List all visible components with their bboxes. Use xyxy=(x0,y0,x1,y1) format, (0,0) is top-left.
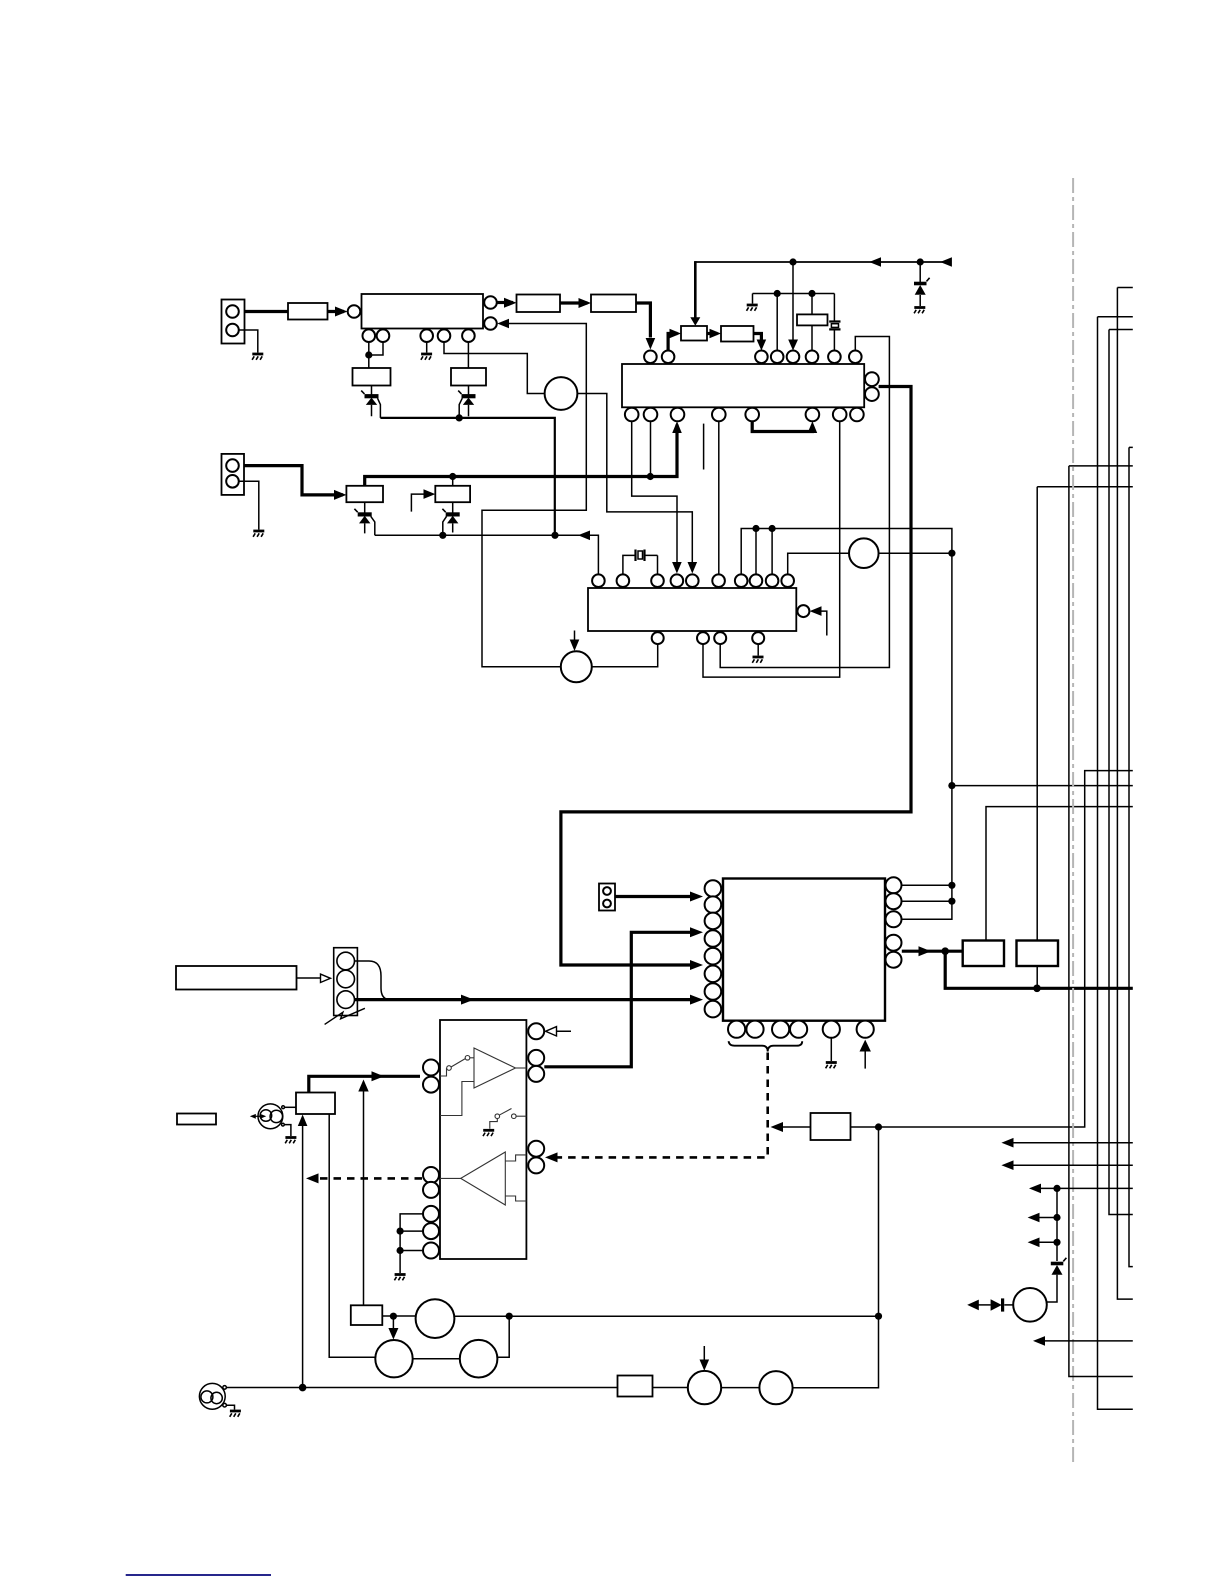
motor circle MD xyxy=(416,1299,455,1338)
resistor R1 xyxy=(288,303,328,320)
wire: MD long line to right riser xyxy=(454,1315,878,1317)
ground xyxy=(252,354,263,360)
arrow into MB xyxy=(392,1316,394,1330)
ground xyxy=(752,657,763,663)
wire: IC3 pins 7-9 loop to motor net xyxy=(741,529,952,920)
wire: IC2 pin10 drop xyxy=(650,421,652,476)
IC2 bottom pins xyxy=(625,408,864,422)
wire: A1 output xyxy=(516,1067,527,1069)
IC3 top pins xyxy=(592,574,794,587)
wire: J1 tip to B7 xyxy=(285,1106,296,1108)
wire: IC5 left trio to ground xyxy=(400,1214,422,1273)
resistor R7 xyxy=(963,941,1004,967)
wire: supply line Y262 xyxy=(695,261,947,263)
connector CN4 flex cable xyxy=(325,948,365,1025)
wire: IC3 pin bottom1 to motor M2 xyxy=(592,644,658,667)
wire: J2 sleeve ground xyxy=(227,1405,235,1409)
wire: IC3 right pin input stub xyxy=(812,611,827,635)
resistor R8 xyxy=(1017,941,1059,967)
open arrow stub into IC5 pin1 xyxy=(546,1027,572,1036)
arrow stub into M2 xyxy=(574,631,576,644)
resistor R2A xyxy=(517,295,561,313)
wire: dot drop to MC xyxy=(497,1316,509,1357)
inter-sheet line C xyxy=(1109,330,1133,1215)
ground xyxy=(394,1275,405,1281)
arrow stub into ME xyxy=(703,1346,705,1362)
wire: IC2 pin13 jog to pin14 xyxy=(752,421,812,431)
resistor P2 xyxy=(721,326,754,342)
potentiometer P1 xyxy=(681,326,707,341)
crystal X1 loop xyxy=(623,550,658,575)
wire: IC2 pin15 to IC3 pin12 xyxy=(703,421,840,677)
wire: IC2 pin9 to arc net xyxy=(632,421,677,565)
box B7 xyxy=(296,1093,335,1115)
wire: IC2 pin8 loop to IC3 pin13 xyxy=(720,337,889,668)
inter-sheet line B xyxy=(1098,317,1133,1410)
resistor R4 xyxy=(451,368,486,386)
motor circle ME xyxy=(688,1371,721,1404)
wire: thick rail Y476 to IC2 xyxy=(365,425,677,486)
motor circle MC xyxy=(460,1340,498,1378)
net arrow W6 xyxy=(1033,1336,1133,1346)
wire: R2B to IC2 pin1 xyxy=(636,303,650,338)
wire: R8 top rail Y486 xyxy=(1037,487,1133,989)
IC1 right pins xyxy=(484,296,497,330)
wire: diode bus Y535 to IC3 pin1 xyxy=(375,535,599,574)
diode D1 (zener) xyxy=(361,386,380,418)
box B5 floating xyxy=(177,1114,216,1125)
net arrow W3 xyxy=(1029,1184,1133,1194)
IC5 left pins xyxy=(423,1060,439,1259)
zener diode ZD2 xyxy=(1048,1258,1067,1302)
wire: B10 left arrow to dashed riser xyxy=(776,1126,811,1128)
wire: M3 to bus xyxy=(879,552,952,554)
wire: CN4 curl xyxy=(355,961,391,1000)
LED circle MG xyxy=(1013,1288,1047,1322)
wire: feedback into IC1 right pin2 xyxy=(482,324,586,667)
wire: CN2 to R5B xyxy=(245,466,344,495)
dashed net: IC5 out to jack riser xyxy=(311,1177,422,1180)
op-amp A1 xyxy=(474,1048,516,1088)
ground xyxy=(421,354,432,360)
wire: IC4 right pair thick to R7 and Y988 rail xyxy=(902,951,1133,988)
IC1 bottom pins xyxy=(363,329,475,342)
wire: IC1 pin14 to R4 xyxy=(467,342,469,368)
wire: IC2 right pins thick net to IC4 xyxy=(561,387,911,966)
resistor R5B xyxy=(346,486,383,502)
connector CN3 xyxy=(599,884,615,911)
input stub arrow to R5C xyxy=(411,494,431,512)
wire: IC2 pin12 straight to IC3 xyxy=(718,421,720,574)
wire: B7 right leg to C-B circle row xyxy=(329,1114,375,1357)
wire: CN1 to R1 xyxy=(245,310,289,313)
wire: CN4 to IC4 pair4 xyxy=(355,998,695,1001)
wire: IC1 pin13 to pump circle M1 xyxy=(444,342,545,394)
wire: IC1 pin12 to ground xyxy=(426,342,428,353)
IC1 left pin xyxy=(348,305,361,318)
resistor R5C xyxy=(435,486,470,502)
motor circle M3 xyxy=(849,538,879,568)
ground xyxy=(285,1138,296,1144)
wire: ME to MF xyxy=(721,1387,759,1389)
wire: P1 to P2 xyxy=(707,332,718,335)
net arrow W5 xyxy=(1028,1238,1061,1248)
IC5 right pins xyxy=(528,1023,544,1173)
ground xyxy=(914,308,925,314)
motor circle M1 xyxy=(545,377,578,410)
motor circle MB xyxy=(375,1340,412,1377)
IC1 xyxy=(362,294,484,329)
crystal X2 xyxy=(829,294,840,351)
IC3 xyxy=(588,588,796,631)
footer link line xyxy=(126,1574,271,1576)
headphone jack J1 xyxy=(250,1104,285,1129)
wire: B9 to ME xyxy=(653,1387,688,1389)
IC3 bottom pins xyxy=(652,632,765,644)
wire: Y293 to IC2 pin4 xyxy=(776,294,778,351)
box B9 xyxy=(618,1376,653,1397)
arrow riser into B7 bottom xyxy=(302,1126,304,1388)
wire: J2 tip long line to B9 xyxy=(227,1387,618,1389)
wire: diode bus Y418 xyxy=(380,418,554,535)
wire: MF to right riser xyxy=(793,1127,879,1388)
wire: CN3 to IC4 pair1 xyxy=(615,895,694,898)
wire: W3 bus drop to zener xyxy=(1056,1188,1058,1261)
wire: M1 to IC3 pin net xyxy=(577,394,692,566)
box B10 xyxy=(811,1113,851,1140)
wire: P2 to IC2 pin3 xyxy=(754,334,762,347)
wire: Y262 drop to IC2 pin5 xyxy=(792,262,794,346)
wire: A2 output xyxy=(440,1177,461,1179)
IC4 right pins xyxy=(886,877,902,967)
diode D5 into MG xyxy=(967,1298,1013,1311)
IC4 left pins xyxy=(705,880,722,1017)
IC2 right pins xyxy=(865,372,879,401)
wire: IC2 pin2 to pot P1 xyxy=(668,334,677,351)
wire: bias line Y293 xyxy=(753,294,835,304)
wire: B7 top to IC5 left pair1 xyxy=(309,1076,420,1092)
wire: IC1 out to R2A xyxy=(497,301,513,304)
ground xyxy=(826,1063,837,1069)
net arrow W1 xyxy=(1001,1138,1132,1148)
wire: Y293 through RB1 to IC2 pin6 xyxy=(811,294,813,351)
IC3 right pin xyxy=(797,605,809,617)
ground xyxy=(253,531,264,537)
inter-sheet line D xyxy=(1129,447,1133,1266)
floating bus stub xyxy=(703,424,705,470)
connector CN2 xyxy=(222,454,245,495)
ground xyxy=(747,305,758,311)
wire: IC1 pin10/11 junction to R3 xyxy=(369,342,383,368)
motor circle MF xyxy=(759,1371,792,1404)
IC4 bottom pins xyxy=(728,1021,874,1038)
inter-sheet line E xyxy=(1069,466,1133,1377)
ground xyxy=(483,1130,494,1136)
zener diode ZD1 xyxy=(914,262,930,306)
wire: A1 feedback step xyxy=(440,1082,474,1116)
motor circle M2 xyxy=(561,651,592,682)
wire: R7 top to Y806 stub xyxy=(986,807,1133,941)
dashed net: brace to IC5 xyxy=(549,1053,768,1158)
wire: bus dot to right edge Y785 xyxy=(952,785,1133,787)
inter-sheet line A xyxy=(1117,288,1132,1300)
arrow stub into IC4 bottom pin6 xyxy=(864,1050,866,1069)
wire: MB to MC xyxy=(413,1358,460,1360)
net arrow W4 xyxy=(1028,1213,1061,1223)
wire: A2 inputs xyxy=(505,1155,526,1201)
diode D2 (zener) xyxy=(458,386,475,418)
wire: J1 sleeve to ground xyxy=(284,1125,291,1136)
wire: B8 to motor MD xyxy=(382,1315,415,1317)
wire: R1 to IC1 input pin xyxy=(328,310,345,313)
box B8 xyxy=(351,1305,383,1325)
wire: R2A to R2B xyxy=(560,301,588,304)
wire: IC4 bottom pin5 to ground xyxy=(830,1038,832,1061)
brace under IC4 xyxy=(729,1041,803,1051)
IC2 top pins xyxy=(644,351,861,364)
diode D4 (zener) xyxy=(442,502,459,535)
wire: B6 arrow to CN4 xyxy=(297,977,322,979)
connector CN1 xyxy=(222,300,245,344)
resonator RB1 xyxy=(797,314,828,325)
ground xyxy=(230,1411,241,1417)
wire: bus dots to IC4 right pins xyxy=(902,885,952,901)
IC2 xyxy=(622,364,864,407)
wire: B10 right to Y770 stub xyxy=(851,771,1133,1127)
resistor R3 xyxy=(353,368,391,386)
box B6 xyxy=(176,966,297,990)
wire: CN2 pin2 to ground xyxy=(239,481,259,529)
wire: CN1 pin2 to ground xyxy=(239,330,258,353)
wire: IC5 right pair to IC4 pair2 xyxy=(544,932,694,1067)
wire: IC3 bottom pin4 to ground xyxy=(757,644,759,656)
switch SW2 xyxy=(490,1109,527,1129)
IC5 power amp xyxy=(440,1020,526,1259)
fold line (page boundary) xyxy=(1072,178,1074,1465)
resistor R2B xyxy=(591,295,636,313)
wire: B8 thick riser xyxy=(363,1090,365,1305)
IC4 xyxy=(723,879,885,1021)
phone jack J2 xyxy=(199,1383,226,1409)
switch SW1 xyxy=(440,1056,474,1077)
net arrow W2 xyxy=(1001,1160,1132,1170)
wire: IC3 pin10 to motor M3 xyxy=(788,553,849,574)
diode D3 (zener) xyxy=(354,502,374,535)
op-amp A2 xyxy=(461,1152,506,1205)
